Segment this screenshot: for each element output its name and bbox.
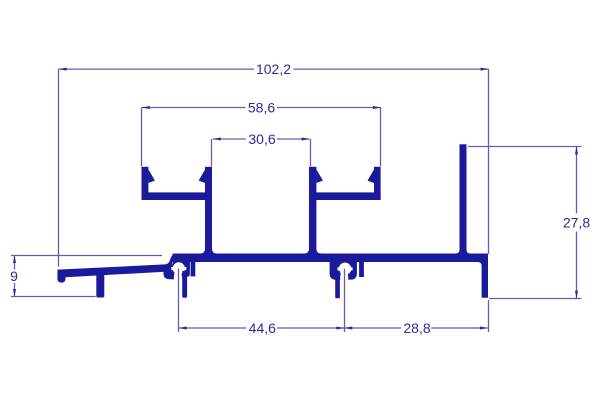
svg-text:9: 9 xyxy=(10,268,18,284)
svg-text:58,6: 58,6 xyxy=(248,100,275,116)
svg-text:27,8: 27,8 xyxy=(563,215,590,231)
svg-text:30,6: 30,6 xyxy=(248,131,275,147)
svg-text:102,2: 102,2 xyxy=(256,61,291,77)
svg-text:28,8: 28,8 xyxy=(403,320,430,336)
svg-text:44,6: 44,6 xyxy=(249,320,276,336)
